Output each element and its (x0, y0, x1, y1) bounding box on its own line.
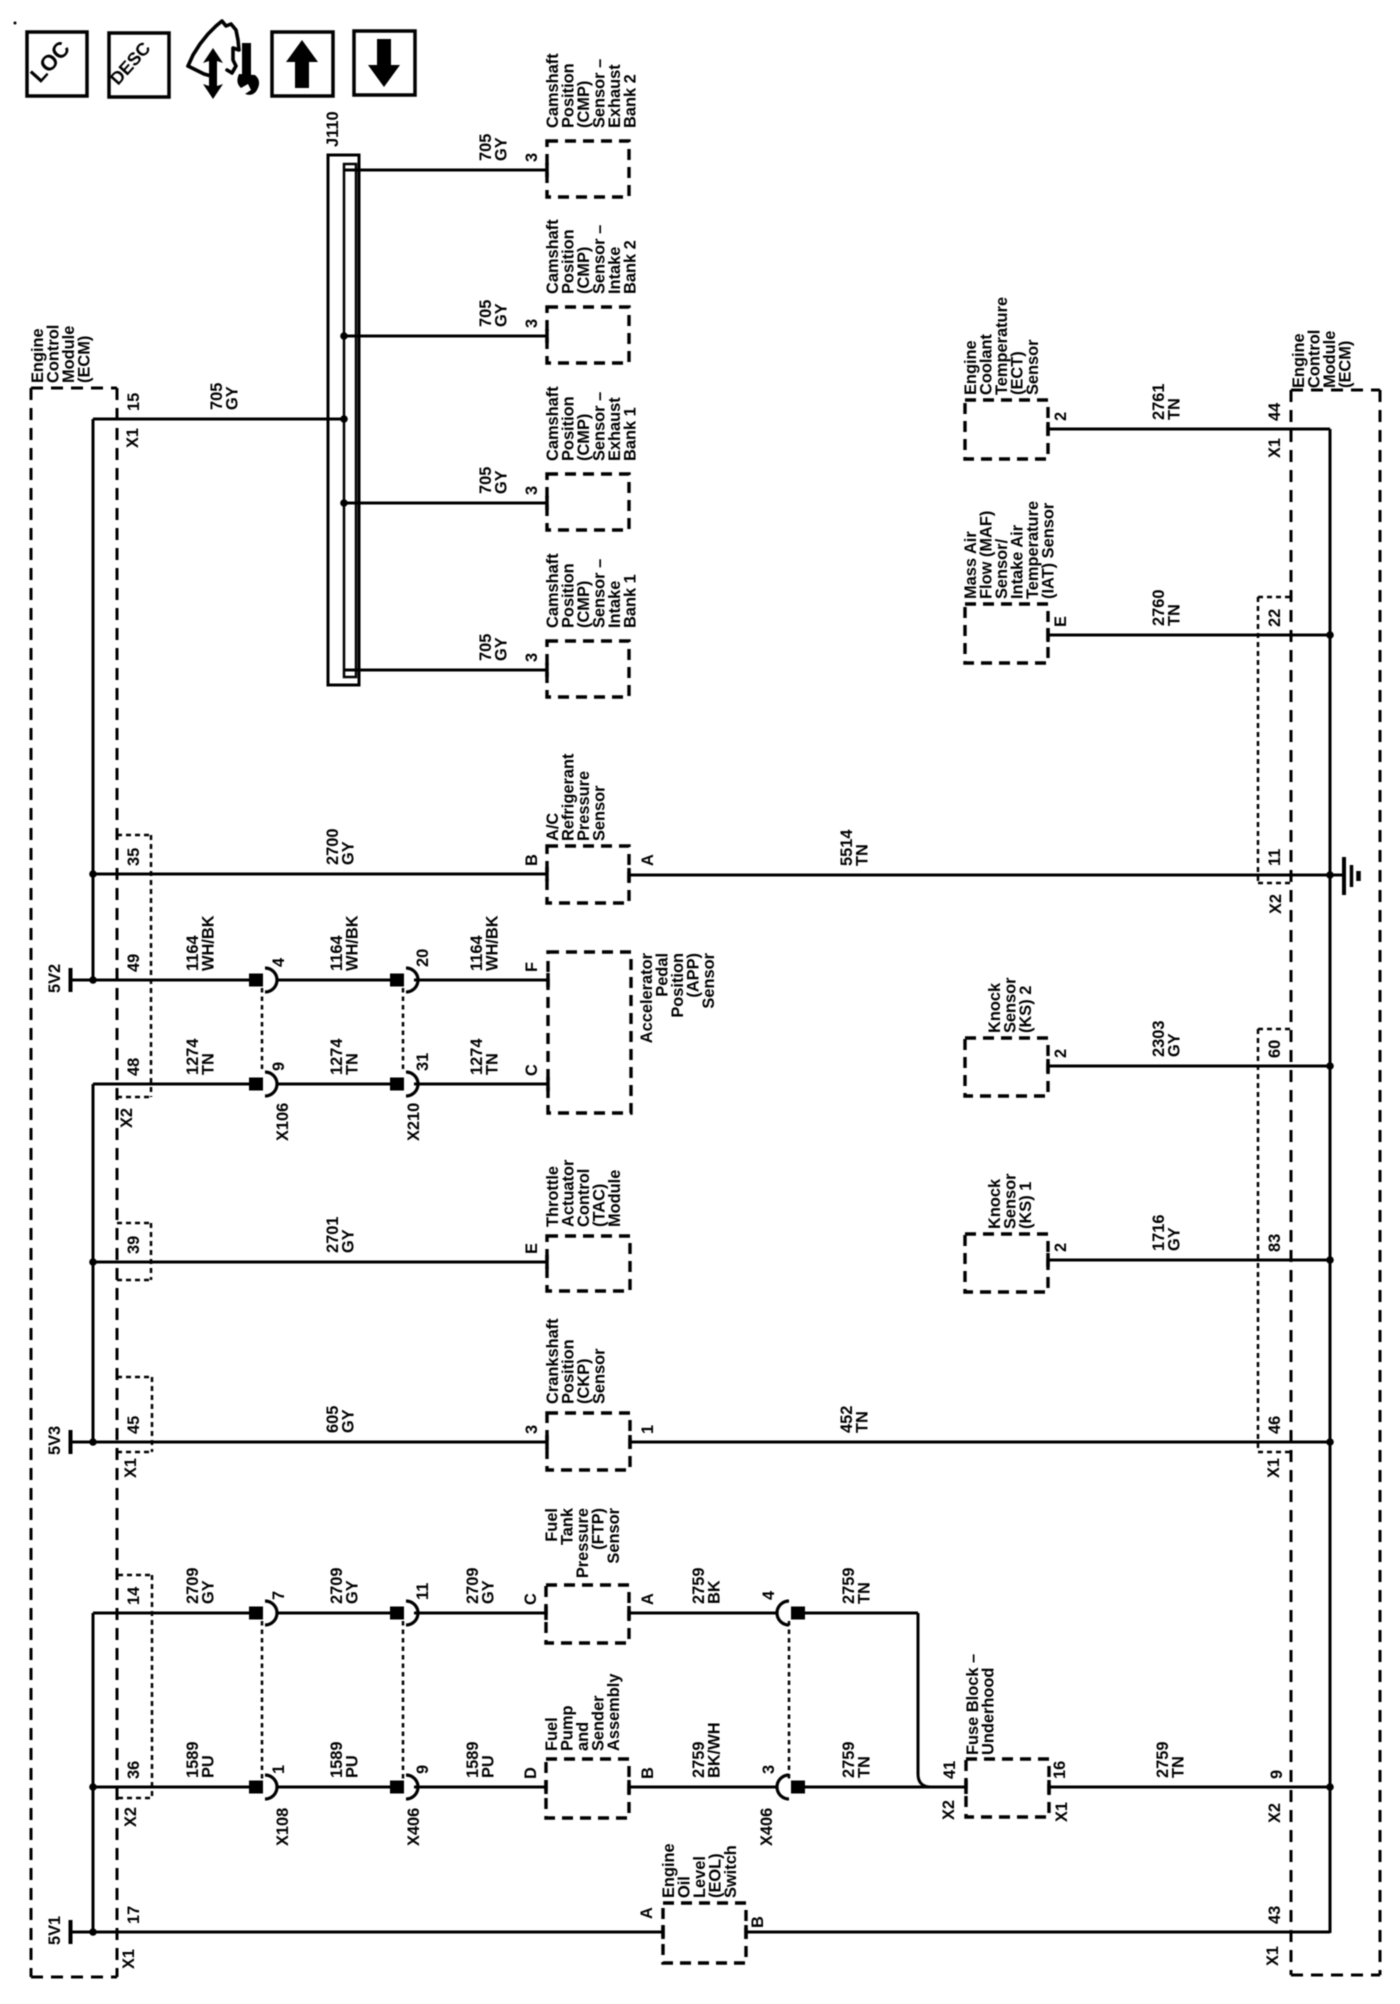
svg-text:GY: GY (492, 470, 510, 494)
svg-text:C: C (522, 1593, 540, 1605)
wire 2759 BK from FTP A to X406 pin 4 (629, 1612, 777, 1615)
svg-text:9: 9 (414, 1765, 432, 1774)
5V1 reference tap (69, 1920, 73, 1944)
svg-text:GY: GY (223, 386, 241, 410)
svg-text:A: A (639, 1593, 657, 1605)
svg-text:16: 16 (1051, 1761, 1069, 1779)
svg-text:GY: GY (1165, 1227, 1183, 1251)
svg-text:BK/WH: BK/WH (705, 1722, 723, 1778)
in-line connector X108 pin 1 (249, 1781, 263, 1794)
svg-text:(ECM): (ECM) (75, 336, 93, 383)
svg-text:Module: Module (606, 1170, 624, 1227)
svg-text:7: 7 (270, 1591, 288, 1600)
svg-text:5V3: 5V3 (46, 1426, 64, 1455)
svg-text:E: E (523, 1243, 541, 1254)
ground symbol (1330, 874, 1342, 877)
svg-text:B: B (639, 1767, 657, 1779)
junction on J110 bus (340, 332, 348, 340)
svg-text:GY: GY (339, 1229, 357, 1253)
CMP sensor exhaust bank 1 box (547, 474, 629, 530)
svg-text:1: 1 (270, 1765, 288, 1774)
in-line connector X106 pin 4 (249, 974, 263, 987)
svg-text:17: 17 (125, 1906, 143, 1924)
svg-text:9: 9 (1268, 1770, 1286, 1779)
svg-text:48: 48 (125, 1058, 143, 1076)
5V2 reference tap (69, 968, 73, 992)
svg-text:Assembly: Assembly (605, 1673, 623, 1751)
toolbar icon up-arrow button (272, 32, 333, 96)
svg-text:14: 14 (125, 1586, 143, 1605)
svg-text:E: E (1052, 616, 1070, 627)
svg-text:5V2: 5V2 (46, 964, 64, 993)
connector X406 link (402, 1621, 405, 1779)
wire 2700 GY from ECM X2-35 to A/C sensor B (93, 873, 547, 876)
svg-text:(ECM): (ECM) (1336, 341, 1354, 388)
svg-text:X1: X1 (1265, 1458, 1283, 1478)
svg-text:Bank 1: Bank 1 (621, 407, 639, 461)
knock sensor 2 box (965, 1038, 1048, 1096)
svg-text:GY: GY (339, 841, 357, 865)
wire 2759 BK/WH from fuel pump B to X406 pin 3 (629, 1786, 777, 1789)
svg-text:J110: J110 (324, 111, 342, 147)
wire 1589 PU from ECM X2-36 to fuel pump D (93, 1786, 249, 1789)
svg-text:X2: X2 (1267, 894, 1285, 914)
connector bracket X2 (pins 14,36) (118, 1574, 152, 1577)
CKP sensor box (547, 1413, 630, 1470)
svg-text:GY: GY (479, 1580, 497, 1604)
svg-text:Sensor: Sensor (1024, 339, 1042, 395)
svg-text:X2: X2 (940, 1800, 958, 1820)
svg-text:(KS) 2: (KS) 2 (1017, 986, 1035, 1033)
svg-text:X2: X2 (122, 1807, 140, 1827)
ECM internal 5V reference bus 3 (92, 1613, 95, 1932)
wire 2759 TN from fuse block 16 to ECM X2-9 (1049, 1786, 1330, 1789)
svg-text:3: 3 (523, 319, 541, 328)
svg-text:TN: TN (1165, 604, 1183, 626)
svg-text:X106: X106 (274, 1103, 292, 1141)
svg-text:2: 2 (1052, 412, 1070, 421)
connector X406 link (2759) (788, 1621, 791, 1779)
wire 2759 TN from X406 to fuse block pin 41 (804, 1786, 966, 1789)
svg-text:WH/BK: WH/BK (199, 915, 217, 971)
wire 705 GY branch to CMP sensor intake bank 1 (344, 669, 547, 672)
svg-text:4: 4 (270, 957, 288, 967)
connector bracket (pin 39) (117, 1222, 151, 1225)
in-line connector X210 pin 20 (390, 974, 404, 987)
pin tick CMP sensor intake bank 2 (545, 329, 549, 343)
ECM left: Engine Control Module box (31, 387, 117, 390)
svg-text:GY: GY (199, 1580, 217, 1604)
svg-text:C: C (523, 1064, 541, 1076)
svg-text:B: B (749, 1916, 767, 1928)
svg-text:BK: BK (705, 1580, 723, 1604)
svg-text:WH/BK: WH/BK (343, 915, 361, 971)
wire 2701 GY from ECM X2-39 to TAC E (93, 1261, 547, 1264)
svg-text:TN: TN (855, 1756, 873, 1778)
svg-text:3: 3 (523, 486, 541, 495)
svg-text:X406: X406 (405, 1808, 423, 1846)
svg-text:A: A (638, 1907, 656, 1919)
wire 705 GY from ECM X1-15 to J110 (93, 418, 344, 421)
ECM internal 5V reference bus 2 (92, 1084, 95, 1442)
5V3 reference tap (69, 1430, 73, 1454)
svg-text:3: 3 (523, 653, 541, 662)
svg-text:X1: X1 (124, 428, 142, 448)
svg-text:X406: X406 (758, 1808, 776, 1846)
svg-text:TN: TN (853, 844, 871, 866)
CMP sensor intake bank 1 box (547, 641, 629, 697)
svg-text:GY: GY (492, 637, 510, 661)
wire from EOL B to ECM X1-43 (746, 1931, 1330, 1934)
svg-text:GY: GY (492, 137, 510, 161)
wire 705 GY branch to CMP sensor exhaust bank 2 (344, 169, 547, 172)
svg-text:X1: X1 (122, 1458, 140, 1478)
svg-text:Sensor: Sensor (590, 1348, 608, 1404)
svg-text:3: 3 (523, 153, 541, 162)
fuel pump and sender assembly box (546, 1759, 629, 1818)
svg-text:TN: TN (199, 1053, 217, 1075)
toolbar icon LOC button (27, 32, 87, 96)
svg-text:1: 1 (639, 1425, 657, 1434)
svg-text:31: 31 (414, 1053, 432, 1071)
wire 1716 GY from KS1 2 to ECM X1-83 (1048, 1259, 1330, 1262)
ECM left connector face line (116, 388, 119, 1977)
wire 1274 TN from ECM X2-48 to APP C (93, 1083, 249, 1086)
junction at ground bus (1326, 871, 1334, 879)
svg-text:X1: X1 (120, 1949, 138, 1969)
wire 2760 TN from MAF E to ECM X2-22 (1048, 634, 1330, 637)
wire 2761 TN from ECT 2 to ECM X1-44 (1048, 428, 1330, 431)
pin tick CMP sensor intake bank 1 (545, 663, 549, 677)
svg-text:2: 2 (1052, 1049, 1070, 1058)
svg-text:Bank 2: Bank 2 (621, 74, 639, 128)
ECT sensor box (965, 400, 1048, 459)
svg-text:11: 11 (1266, 849, 1284, 866)
splice pack J110 outer body (328, 155, 359, 685)
ECM internal 5V reference bus 1 (92, 419, 95, 980)
svg-text:X1: X1 (1266, 438, 1284, 458)
svg-text:(IAT) Sensor: (IAT) Sensor (1039, 502, 1057, 599)
svg-text:PU: PU (343, 1755, 361, 1778)
wire from ECM X1-17 (5V1) to EOL A (72, 1931, 663, 1934)
wire 452 TN from CKP 1 to ECM X1-46 (630, 1441, 1330, 1444)
svg-text:TN: TN (483, 1053, 501, 1075)
svg-text:TN: TN (855, 1582, 873, 1604)
svg-text:TN: TN (1165, 398, 1183, 420)
svg-text:Switch: Switch (722, 1845, 740, 1898)
svg-text:Underhood: Underhood (979, 1668, 997, 1755)
svg-text:9: 9 (270, 1062, 288, 1071)
svg-text:3: 3 (523, 1425, 541, 1434)
svg-text:PU: PU (479, 1755, 497, 1778)
svg-text:46: 46 (1266, 1416, 1284, 1434)
connector bracket X2 (pins 35,49,48) (117, 834, 151, 837)
engine oil level switch box (663, 1903, 746, 1963)
wire 2709 GY from ECM X2-14 to FTP C (93, 1612, 249, 1615)
svg-text:GY: GY (339, 1409, 357, 1433)
svg-text:5V1: 5V1 (46, 1916, 64, 1945)
pin tick CMP sensor exhaust bank 2 (545, 163, 549, 177)
svg-text:D: D (522, 1767, 540, 1779)
svg-text:GY: GY (492, 303, 510, 327)
fuse block underhood box (966, 1759, 1049, 1817)
knock sensor 1 box (965, 1234, 1048, 1292)
wire 705 GY branch to CMP sensor exhaust bank 1 (344, 502, 547, 505)
FTP sensor box (546, 1585, 629, 1643)
svg-text:PU: PU (199, 1755, 217, 1778)
svg-text:41: 41 (941, 1761, 959, 1779)
svg-text:(KS) 1: (KS) 1 (1017, 1182, 1035, 1229)
A/C refrigerant pressure sensor box (547, 846, 629, 903)
svg-text:60: 60 (1266, 1040, 1284, 1058)
wire 1164 WH/BK from ECM X2-49 (5V2) to APP F (72, 979, 249, 982)
in-line connector X406 pin 11 (390, 1607, 404, 1620)
in-line connector X108 pin 7 (249, 1607, 263, 1620)
svg-text:B: B (523, 854, 541, 866)
svg-text:83: 83 (1266, 1234, 1284, 1252)
svg-text:20: 20 (414, 949, 432, 967)
svg-text:X2: X2 (118, 1108, 136, 1128)
svg-text:35: 35 (125, 848, 143, 866)
in-line connector X406 pin 4 (777, 1601, 789, 1625)
svg-text:39: 39 (125, 1236, 143, 1254)
svg-text:45: 45 (125, 1416, 143, 1434)
svg-text:GY: GY (1165, 1033, 1183, 1057)
svg-text:Sensor: Sensor (700, 952, 718, 1008)
pin tick CMP sensor exhaust bank 1 (545, 496, 549, 510)
wire 705 GY branch to CMP sensor intake bank 2 (344, 335, 547, 338)
connector bracket (pin 45) (117, 1376, 152, 1379)
APP sensor box (548, 952, 631, 1113)
wire 605 GY from ECM X1-45 (5V3) to CKP 3 (72, 1441, 547, 1444)
svg-text:Bank 1: Bank 1 (621, 574, 639, 628)
svg-text:43: 43 (1266, 1906, 1284, 1924)
toolbar icon DESC button (109, 33, 169, 97)
connector X106 link (261, 988, 264, 1073)
ECM right: Engine Control Module box (1291, 389, 1380, 392)
svg-text:Bank 2: Bank 2 (621, 240, 639, 294)
in-line connector X406 pin 9 (390, 1781, 404, 1794)
svg-text:WH/BK: WH/BK (483, 915, 501, 971)
junction on J110 bus (feed) (340, 415, 348, 423)
svg-text:49: 49 (125, 954, 143, 972)
CMP sensor intake bank 2 box (547, 307, 629, 363)
svg-text:36: 36 (125, 1761, 143, 1779)
svg-text:TN: TN (1169, 1756, 1187, 1778)
MAF/IAT sensor box (965, 604, 1048, 663)
svg-text:X1: X1 (1264, 1946, 1282, 1966)
svg-text:X1: X1 (1053, 1802, 1071, 1822)
svg-text:22: 22 (1266, 609, 1284, 627)
splice pack J110 inner bus bar (344, 164, 356, 677)
wire 2759 TN from X406 to fuse block (vertical run) (804, 1612, 918, 1615)
svg-text:2: 2 (1052, 1243, 1070, 1252)
svg-text:44: 44 (1266, 402, 1284, 421)
ECM right connector face line (1290, 390, 1293, 1975)
wire 2303 GY from KS2 2 to ECM X1-60 (1048, 1065, 1330, 1068)
toolbar icon jump-to with wrench (188, 21, 239, 76)
svg-text:3: 3 (760, 1765, 778, 1774)
wire 5514 TN from A/C sensor A to ECM X2-11 and ground (629, 874, 1342, 877)
svg-text:X210: X210 (405, 1103, 423, 1141)
connector bracket X2 right (pins 22,11) (1258, 596, 1291, 599)
svg-text:TN: TN (343, 1053, 361, 1075)
svg-text:4: 4 (760, 1590, 778, 1600)
junction on J110 bus (340, 499, 348, 507)
svg-text:F: F (523, 962, 541, 972)
svg-text:GY: GY (343, 1580, 361, 1604)
TAC module box (547, 1236, 630, 1291)
connector bracket X1 right (pins 60,83,46) (1258, 1028, 1291, 1031)
svg-text:X2: X2 (1266, 1803, 1284, 1823)
svg-text:Sensor: Sensor (605, 1507, 623, 1563)
in-line connector X210 pin 31 (390, 1078, 404, 1091)
svg-text:11: 11 (414, 1583, 432, 1600)
in-line connector X406 pin 3 (777, 1775, 789, 1799)
toolbar icon down-arrow button (354, 31, 415, 95)
connector X210 link (402, 988, 405, 1073)
svg-text:15: 15 (125, 393, 143, 411)
ECM internal low-reference/ground bus (1329, 429, 1332, 1933)
connector X108 link (261, 1621, 264, 1779)
svg-text:X108: X108 (274, 1808, 292, 1846)
svg-text:TN: TN (853, 1411, 871, 1433)
in-line connector X106 pin 9 (249, 1078, 263, 1091)
svg-text:A: A (639, 854, 657, 866)
CMP sensor exhaust bank 2 box (547, 141, 629, 197)
svg-text:Sensor: Sensor (590, 785, 608, 841)
